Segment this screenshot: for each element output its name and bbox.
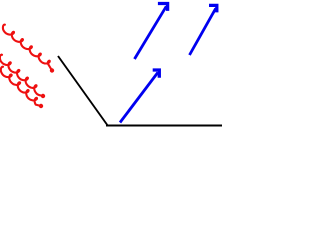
electron arrow B shaft	[190, 8, 216, 55]
metal surface diagonal edge	[58, 56, 108, 126]
electron arrow A shaft	[135, 6, 167, 59]
photon arrowhead dot 1	[50, 68, 54, 72]
photoelectric effect diagram	[0, 0, 222, 160]
electron arrow A head	[158, 4, 168, 11]
electron arrow C head	[153, 70, 160, 78]
metal surface horizontal edge	[106, 125, 222, 127]
electron arrow C shaft	[120, 72, 158, 122]
photon wavy arrow 1	[3, 25, 52, 71]
photon arrowhead dot 3	[39, 104, 43, 108]
electron arrow B head	[209, 5, 217, 12]
photon wavy arrow 3	[1, 67, 41, 106]
photon arrowhead dot 2	[41, 94, 45, 98]
photon wavy arrow 2	[0, 55, 43, 96]
